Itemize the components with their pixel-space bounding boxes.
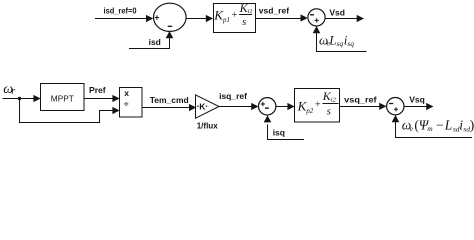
wire PI2 to summing junction S4 bbox=[340, 103, 387, 110]
summing junction S1 bbox=[154, 3, 187, 31]
MPPT block bbox=[41, 84, 85, 111]
value label Kp2 bbox=[297, 99, 314, 115]
svg-text:r: r bbox=[11, 86, 15, 97]
svg-text:Pref: Pref bbox=[89, 85, 106, 95]
sign plus S1 bbox=[155, 15, 159, 19]
sign minus S3 bbox=[265, 107, 269, 109]
svg-text:vsq_ref: vsq_ref bbox=[344, 94, 377, 104]
value label -K- bbox=[197, 102, 207, 112]
sign minus S2 bbox=[310, 14, 314, 16]
svg-text:i1: i1 bbox=[248, 8, 253, 15]
gain block triangle 1/flux bbox=[196, 95, 220, 118]
wire omega_r feedback to divider bbox=[20, 99, 120, 123]
svg-text:1/flux: 1/flux bbox=[197, 121, 218, 131]
PI controller block 1 bbox=[214, 4, 256, 33]
summing junction S4 bbox=[387, 98, 404, 115]
summing junction S2 bbox=[308, 9, 325, 26]
wire S3 to PI block 2 bbox=[276, 103, 295, 110]
wire isq feedback into S3 bbox=[264, 115, 304, 139]
wire isd_ref input bbox=[95, 15, 153, 22]
sign minus S4 bbox=[389, 103, 393, 105]
label omega_r bbox=[3, 82, 15, 97]
wire Tem_cmd bbox=[142, 104, 196, 111]
svg-text:Vsq: Vsq bbox=[409, 95, 425, 105]
svg-text:vsd_ref: vsd_ref bbox=[259, 5, 289, 15]
product divide block bbox=[120, 88, 143, 118]
svg-text:isd_ref=0: isd_ref=0 bbox=[104, 5, 137, 15]
value label Ki1 over s bbox=[239, 1, 253, 28]
wire S1 to PI block 1 bbox=[186, 15, 213, 22]
svg-text:sq: sq bbox=[347, 39, 354, 48]
svg-text:+: + bbox=[232, 10, 238, 21]
svg-text:x: x bbox=[124, 88, 129, 98]
summing junction S3 bbox=[259, 98, 276, 115]
value label omega_e Lsq isq bbox=[319, 32, 354, 48]
svg-text:p2: p2 bbox=[305, 107, 314, 115]
sign plus S3 bbox=[261, 102, 265, 106]
svg-text:L: L bbox=[328, 32, 336, 47]
wire decoupling term into S2 bbox=[313, 26, 367, 52]
svg-text:sq: sq bbox=[337, 39, 344, 48]
wire S4 to Vsq output bbox=[404, 103, 433, 110]
svg-text:isq_ref: isq_ref bbox=[219, 91, 247, 101]
svg-text:i2: i2 bbox=[331, 96, 337, 103]
svg-text:+: + bbox=[315, 100, 321, 111]
svg-text:MPPT: MPPT bbox=[51, 93, 74, 103]
svg-text:s: s bbox=[242, 16, 246, 28]
wire omega_r input bbox=[3, 95, 41, 102]
wire isq_ref bbox=[219, 103, 259, 110]
value label Ki2 over s bbox=[322, 89, 339, 117]
svg-text:p1: p1 bbox=[222, 16, 230, 24]
junction dot on omega_r line bbox=[18, 97, 21, 100]
wire S2 to vsd output bbox=[325, 15, 364, 22]
svg-text:−: − bbox=[436, 117, 444, 132]
sign plus S4 bbox=[394, 107, 398, 111]
svg-text:s: s bbox=[327, 105, 331, 117]
svg-text:isq: isq bbox=[273, 127, 285, 137]
svg-text:÷: ÷ bbox=[124, 99, 129, 109]
sign minus S1 bbox=[168, 25, 173, 27]
wire decoupling term into S4 bbox=[392, 115, 472, 138]
svg-text:): ) bbox=[470, 118, 474, 133]
wire Pref bbox=[84, 95, 120, 102]
svg-text:isd: isd bbox=[149, 37, 161, 47]
svg-text:Vsd: Vsd bbox=[329, 8, 345, 18]
svg-text:L: L bbox=[444, 118, 453, 133]
svg-text:m: m bbox=[427, 124, 433, 133]
svg-text:e: e bbox=[410, 124, 414, 133]
value label omega_e psi_m minus Lsd isd bbox=[402, 117, 474, 133]
wire PI1 to summing junction S2 bbox=[256, 14, 308, 21]
wire isd feedback into S1 bbox=[129, 31, 173, 49]
PI controller block 2 bbox=[295, 89, 340, 123]
svg-text:Tem_cmd: Tem_cmd bbox=[150, 95, 189, 105]
value label Kp1 bbox=[213, 8, 230, 24]
sign plus S2 bbox=[315, 18, 319, 22]
svg-text:K: K bbox=[199, 102, 206, 112]
